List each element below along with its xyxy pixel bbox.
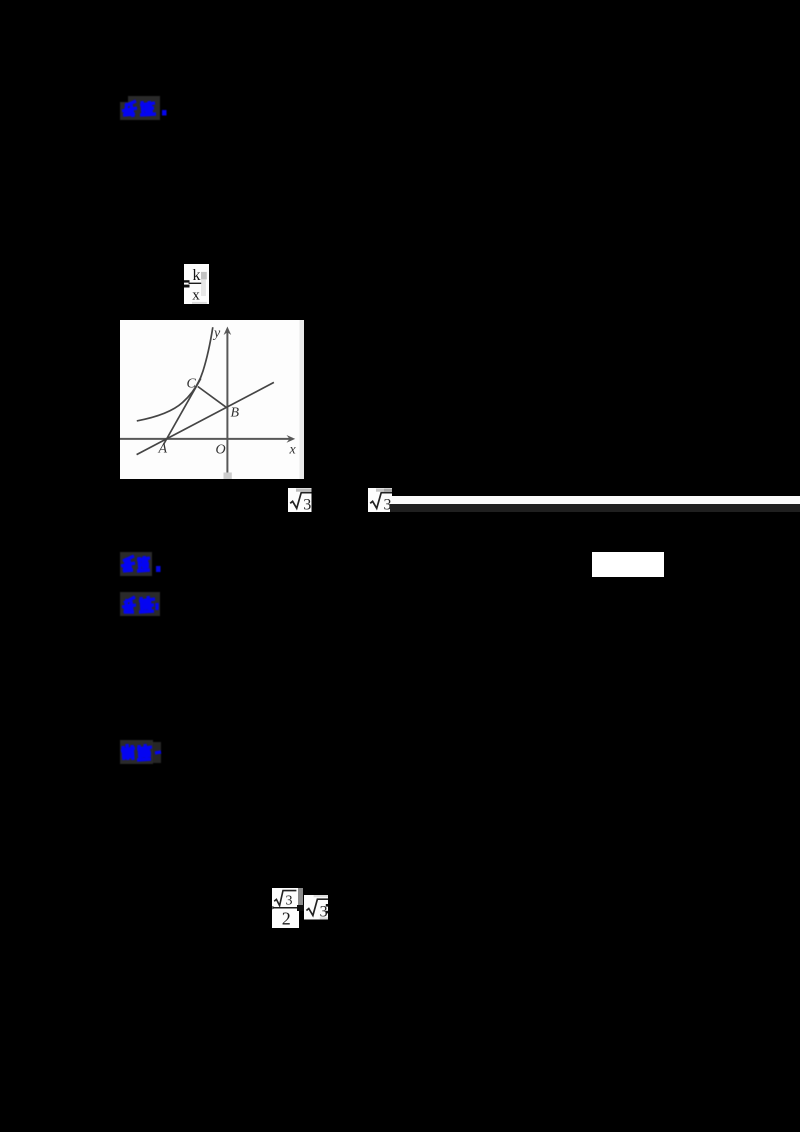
svg-text:B: B [231,405,240,420]
fraction bar [189,283,202,284]
formula image sqrt(3) #2 [368,488,392,512]
svg-text:x: x [192,287,200,303]
answer blank strip (white) running to right page edge [392,496,800,505]
line through A and B [137,382,274,454]
dark gray band under the strip [390,504,800,512]
formula image sqrt(3) #3 [304,895,329,920]
formula image sqrt(3) #1 [288,488,312,512]
hyperbola branch (second quadrant) [137,327,213,421]
x-axis [120,437,291,439]
y-axis [226,330,228,473]
blue label 3 (solution heading) [119,591,169,618]
comma [162,110,167,116]
formula image "= k/x" [184,264,209,304]
segment C to B [198,386,227,407]
formula image fraction sqrt(3)/2 [272,888,299,928]
equals sign (half clipped at left edge) [183,280,190,282]
highlighted answer box (white rectangle) [592,552,664,577]
blue label 1 (analysis heading) [119,95,169,121]
svg-text:3: 3 [303,496,311,512]
svg-text:k: k [193,267,201,284]
half-clipped equals at left [272,906,275,910]
blue label 2 (answer heading) [119,551,169,578]
svg-text:2: 2 [282,909,291,928]
graph image (hyperbola with lines, white box) [120,320,304,479]
bold dark equals blob between formulas [297,905,305,911]
blue label 4 (comment heading) [119,739,171,766]
gray handle square at bottom of y-axis [224,472,232,479]
svg-text:y: y [212,326,221,341]
svg-text:C: C [187,376,197,391]
svg-text:A: A [158,441,168,456]
svg-text:x: x [289,442,297,457]
svg-text:O: O [216,442,226,457]
fraction bar [273,907,299,909]
svg-text:3: 3 [286,894,293,909]
line through A and C [164,378,201,444]
gray bar between fraction and sqrt3 [298,888,304,905]
comma [156,566,161,572]
numerator sqrt(3) [274,891,296,906]
right edge light column [300,320,305,479]
